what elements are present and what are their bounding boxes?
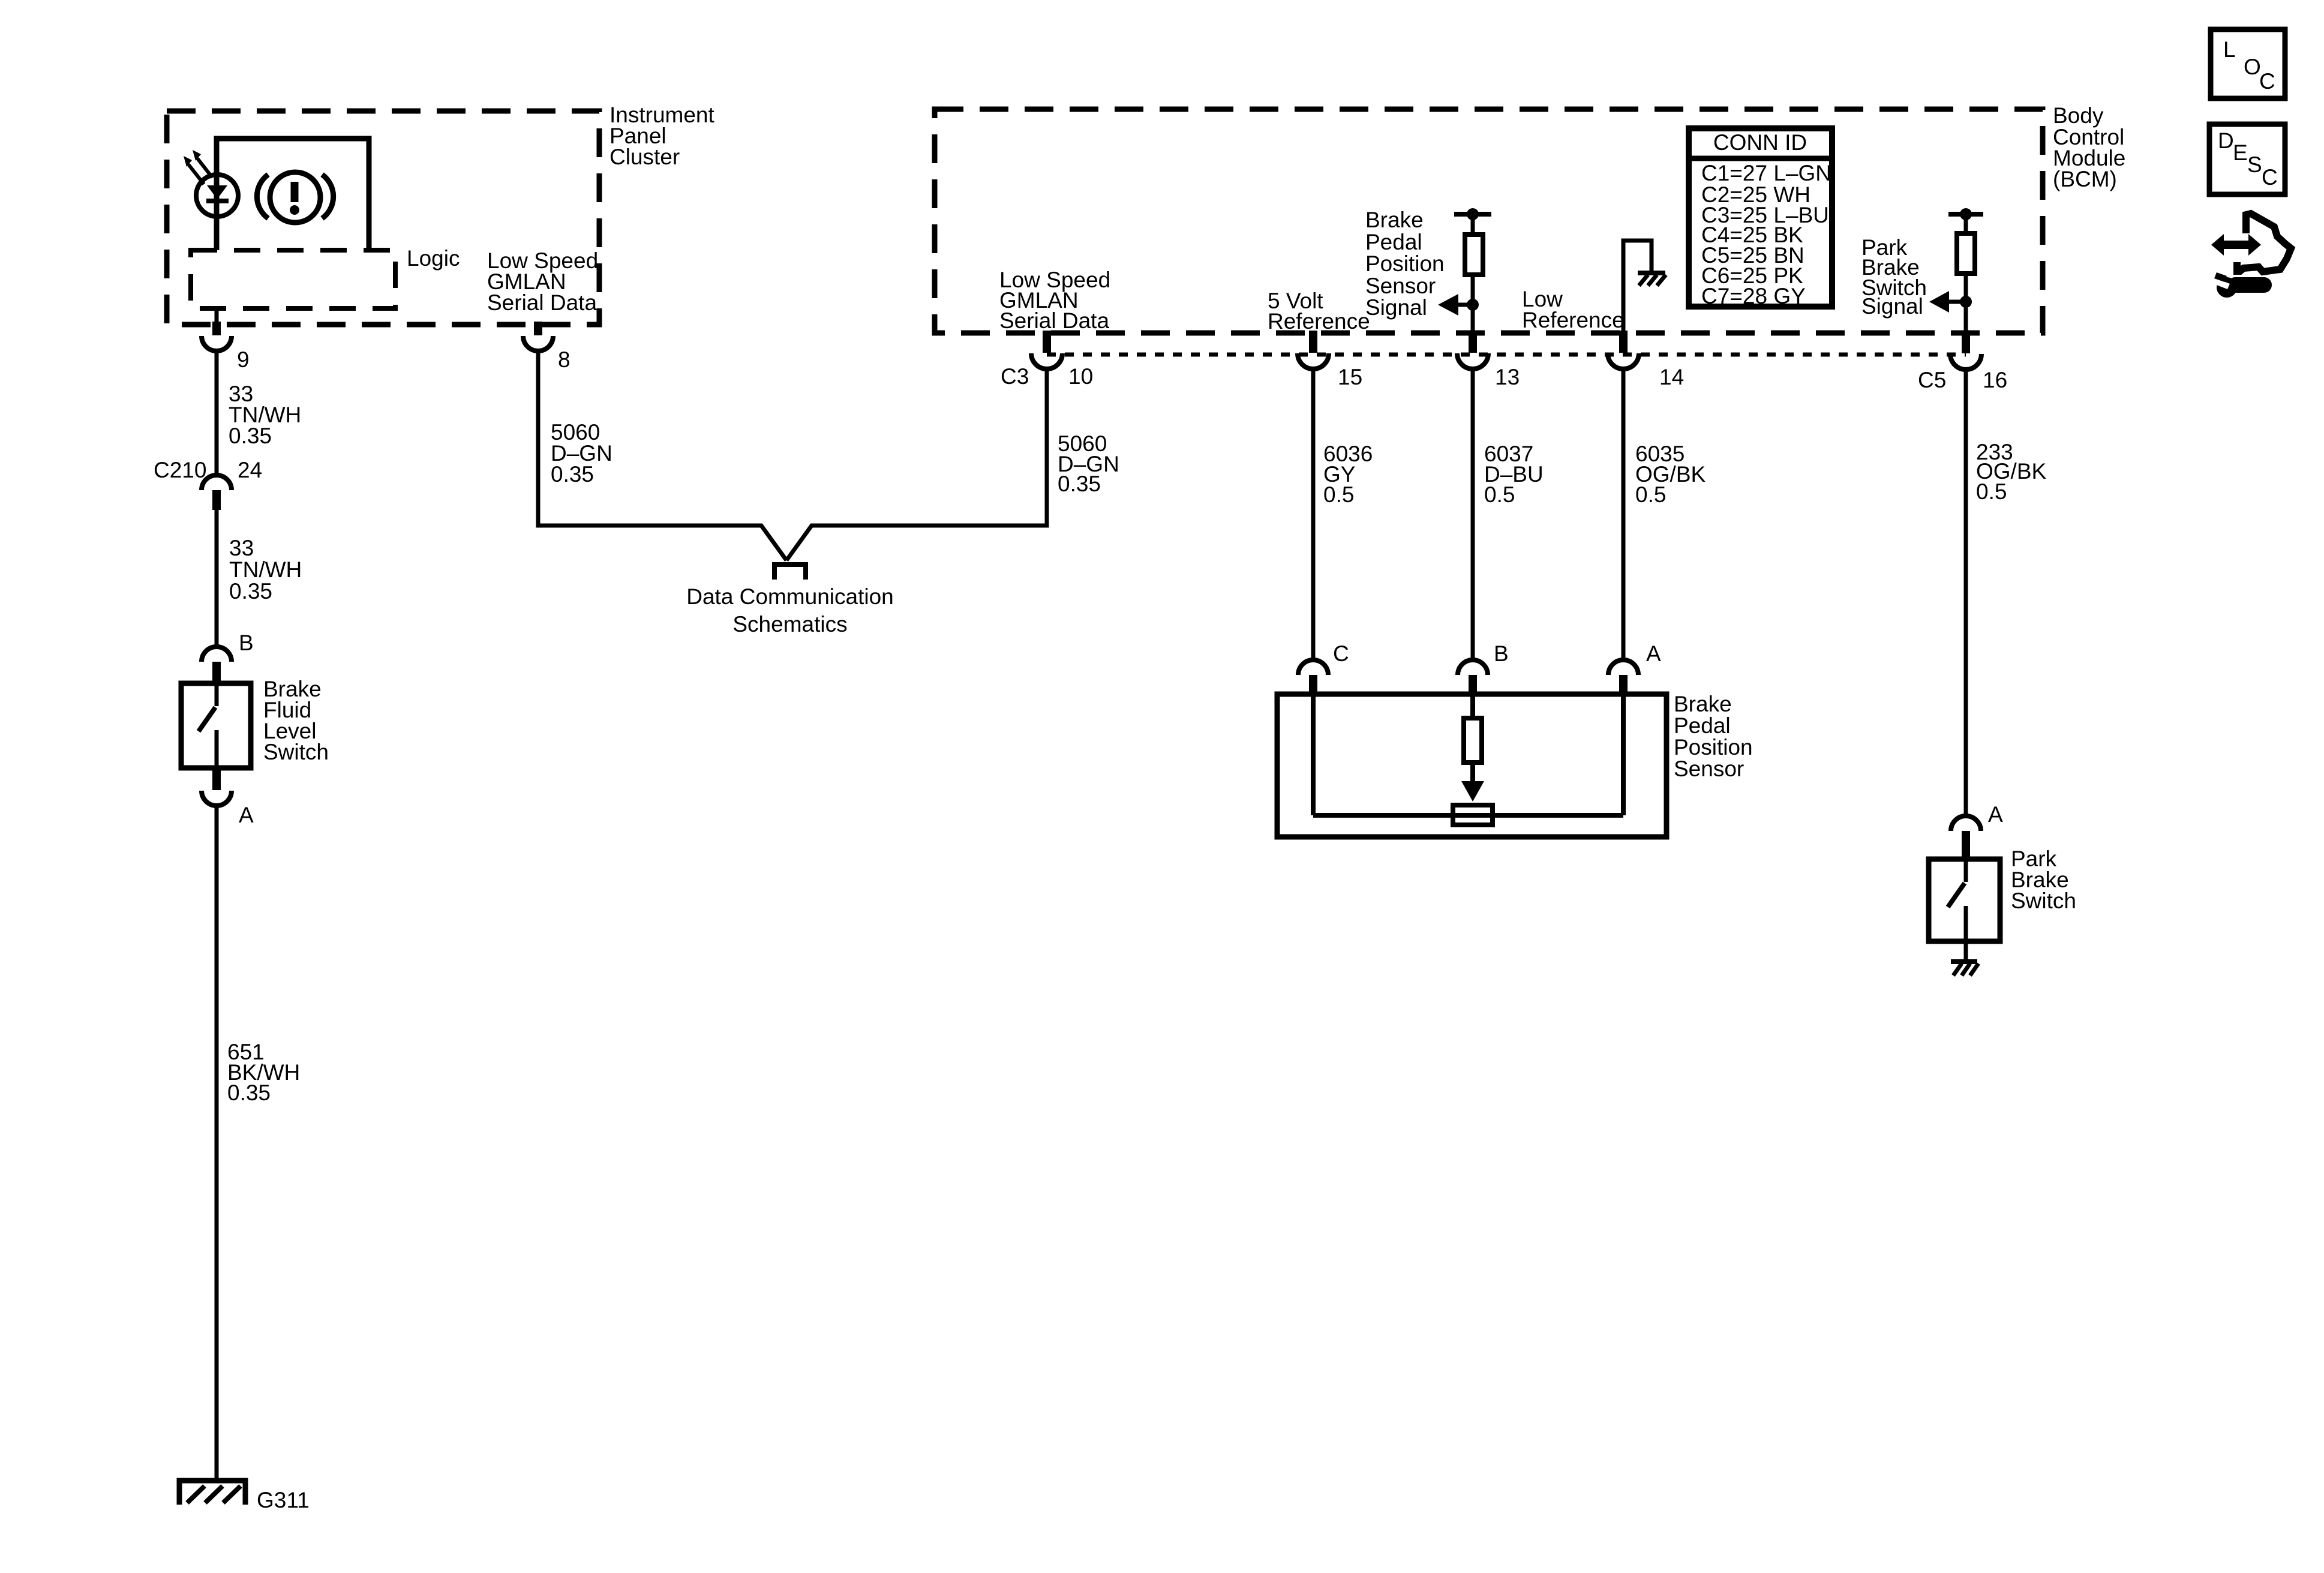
svg-text:10: 10 (1068, 364, 1093, 389)
node: BPPS signal tap with arrow (1438, 294, 1479, 316)
svg-text:0.5: 0.5 (1323, 482, 1354, 507)
wire: circuit 6035 OG/BK (pin 14 to BPPS A) (1622, 369, 1626, 660)
svg-text:B: B (239, 631, 254, 655)
indicator lamp box (inside IPC) (217, 139, 369, 250)
pin 14 of BCM (1608, 331, 1639, 369)
svg-text:C7=28 GY: C7=28 GY (1701, 284, 1806, 308)
connector row (dotted) along BCM bottom (1047, 353, 1966, 357)
label: Low Reference (BCM pin 14) (1522, 287, 1625, 332)
LED brake warning lamp (with emission arrows) (184, 150, 238, 217)
svg-text:Logic: Logic (407, 246, 460, 271)
label: Low Speed GMLAN Serial Data (BCM pin 10) (999, 268, 1110, 333)
icon: LOC box (2211, 29, 2285, 98)
svg-text:Brake: Brake (1674, 692, 1732, 716)
wire: park brake switch to ground (1964, 941, 1968, 960)
svg-text:A: A (239, 803, 254, 827)
ground (BCM internal chassis) (1638, 273, 1666, 286)
value label: 6037 D-BU 0.5 (1484, 442, 1544, 507)
label: Low Speed GMLAN Serial Data (IPC pin 8) (487, 248, 598, 315)
wire: circuit 6036 GY (pin 15 to BPPS C) (1311, 369, 1316, 660)
svg-text:C5: C5 (1918, 368, 1946, 392)
svg-text:24: 24 (238, 458, 262, 482)
svg-text:Pedal: Pedal (1674, 713, 1731, 738)
resistor R1: BPPS signal pull-up (inside BCM) (1454, 208, 1491, 331)
svg-text:Position: Position (1365, 251, 1445, 276)
svg-text:C: C (2259, 69, 2275, 94)
svg-text:0.35: 0.35 (227, 1080, 271, 1105)
pin 8 of IPC (523, 322, 553, 351)
icon: hand with double arrow and wrench (2211, 214, 2291, 298)
wire: circuit 6037 D-BU (pin 13 to BPPS B) (1471, 369, 1475, 660)
svg-text:Switch: Switch (2011, 888, 2076, 913)
svg-text:Serial Data: Serial Data (487, 290, 597, 315)
logic block (dashed) (191, 250, 395, 308)
svg-text:CONN ID: CONN ID (1713, 130, 1807, 155)
svg-text:B: B (1494, 641, 1509, 666)
svg-text:G311: G311 (257, 1488, 310, 1512)
table: CONN ID (1689, 128, 1832, 308)
svg-text:Data Communication: Data Communication (686, 584, 893, 609)
connector pin B of BPPS (1458, 660, 1488, 695)
svg-text:C: C (2262, 165, 2278, 190)
svg-text:A: A (1988, 802, 2003, 827)
connector pin C of BPPS (1298, 660, 1328, 695)
svg-text:Serial Data: Serial Data (999, 308, 1109, 333)
label: Brake Pedal Position Sensor Signal (1365, 208, 1445, 320)
svg-text:Position: Position (1674, 735, 1753, 760)
module box U2: Body Control Module (BCM) (935, 109, 2043, 333)
wire: circuit 651 BK/WH to ground (215, 806, 219, 1478)
wire: LED branch vertical (215, 139, 219, 250)
svg-text:Signal: Signal (1365, 295, 1427, 320)
svg-text:Signal: Signal (1861, 294, 1923, 319)
svg-text:(BCM): (BCM) (2053, 167, 2117, 191)
svg-text:C210: C210 (154, 458, 206, 482)
svg-text:A: A (1646, 641, 1661, 666)
pin 9 of IPC (202, 322, 232, 351)
label: Instrument Panel Cluster (609, 103, 715, 169)
off-page reference: Data Communication Schematics (686, 565, 893, 637)
value label: 33 TN/WH 0.35 (229, 382, 301, 448)
svg-text:Pedal: Pedal (1365, 230, 1422, 254)
brake warning indicator symbol ((!)) (257, 172, 333, 223)
label: Brake Pedal Position Sensor (1674, 692, 1753, 781)
connector pin A of Park Brake Switch (1951, 816, 1981, 857)
sensor U3: Brake Pedal Position Sensor (potentiometer) (1277, 694, 1667, 837)
svg-text:15: 15 (1338, 365, 1362, 389)
inline connector C210 terminal 24 (202, 475, 232, 510)
resistor R2: park brake switch signal pull-up (inside BCM) (1948, 208, 1983, 331)
svg-text:Reference: Reference (1268, 309, 1370, 334)
wire: circuit 233 OG/BK (pin 16 to park brake switch) (1964, 370, 1968, 816)
value label: 33 TN/WH 0.35 (229, 536, 302, 604)
pin 16 of BCM (connector C5) (1950, 331, 1981, 370)
switch S2: Park Brake Switch (1929, 859, 2000, 941)
label: Brake Fluid Level Switch (263, 677, 329, 764)
value label: 233 OG/BK 0.5 (1976, 440, 2047, 504)
svg-text:0.5: 0.5 (1635, 482, 1666, 507)
node: park brake signal tap with arrow (1929, 291, 1972, 313)
value label: 6036 GY 0.5 (1323, 442, 1373, 507)
svg-text:16: 16 (1983, 368, 2007, 392)
connector pin A of Brake Fluid Level Switch (202, 769, 232, 806)
wire: logic block to pin 9 (215, 308, 219, 325)
svg-text:L: L (2223, 37, 2236, 62)
value label: 6035 OG/BK 0.5 (1635, 442, 1706, 507)
ground (park brake switch chassis) (1951, 962, 1978, 975)
svg-text:Sensor: Sensor (1674, 757, 1744, 781)
svg-text:D: D (2218, 128, 2234, 153)
module box U1: Instrument Panel Cluster (167, 111, 599, 325)
svg-text:Cluster: Cluster (609, 145, 680, 169)
pin 15 of BCM (1298, 331, 1329, 369)
label: Park Brake Switch Signal (1861, 235, 1927, 319)
value label: 5060 D-GN 0.35 (left) (551, 420, 612, 487)
svg-text:33: 33 (229, 536, 254, 560)
svg-text:Schematics: Schematics (732, 612, 847, 637)
svg-text:9: 9 (237, 347, 250, 372)
svg-text:14: 14 (1659, 365, 1684, 389)
svg-text:0.5: 0.5 (1976, 479, 2007, 504)
svg-text:13: 13 (1495, 365, 1520, 389)
ground G311 (177, 1478, 248, 1505)
svg-text:C3: C3 (1001, 364, 1029, 389)
icon: DESC box (2209, 124, 2285, 194)
svg-text:S: S (2247, 152, 2262, 177)
svg-text:O: O (2244, 55, 2261, 79)
svg-text:Sensor: Sensor (1365, 274, 1436, 298)
svg-text:TN/WH: TN/WH (229, 557, 302, 582)
wire: circuit 33 TN/WH (IPC pin 9 to C210) (215, 351, 219, 475)
label: Park Brake Switch (2011, 846, 2076, 913)
value label: 651 BK/WH 0.35 (227, 1040, 300, 1105)
label: Body Control Module (BCM) (2053, 103, 2125, 191)
wire: circuit 5060 D-GN from BCM pin 10 (786, 369, 1047, 560)
label: 5 Volt Reference (BCM pin 15) (1268, 289, 1370, 334)
pin 13 of BCM (1457, 331, 1488, 369)
connector pin B of Brake Fluid Level Switch (202, 647, 232, 683)
svg-text:E: E (2233, 140, 2248, 165)
svg-text:0.5: 0.5 (1484, 482, 1515, 507)
value label: 5060 D-GN 0.35 (right) (1058, 431, 1119, 496)
wire: low reference to internal ground (1623, 241, 1652, 332)
svg-text:Switch: Switch (263, 740, 329, 764)
switch S1: Brake Fluid Level Switch (181, 683, 251, 769)
connector pin A of BPPS (1608, 660, 1638, 695)
svg-text:Body: Body (2053, 103, 2104, 128)
pin 10 of BCM (connector C3) (1031, 331, 1062, 369)
svg-text:C: C (1333, 641, 1349, 666)
svg-text:0.35: 0.35 (229, 579, 272, 604)
wire: circuit 5060 D-GN from IPC pin 8 (538, 351, 786, 560)
svg-text:Brake: Brake (1365, 208, 1424, 232)
svg-text:0.35: 0.35 (1058, 472, 1101, 496)
svg-text:8: 8 (558, 347, 571, 372)
svg-text:0.35: 0.35 (229, 424, 272, 448)
wire: circuit 33 TN/WH (C210 to switch pin B) (215, 510, 219, 647)
svg-text:Reference: Reference (1522, 308, 1625, 332)
svg-text:C1=27 L–GN: C1=27 L–GN (1701, 161, 1831, 185)
svg-text:0.35: 0.35 (551, 462, 594, 487)
